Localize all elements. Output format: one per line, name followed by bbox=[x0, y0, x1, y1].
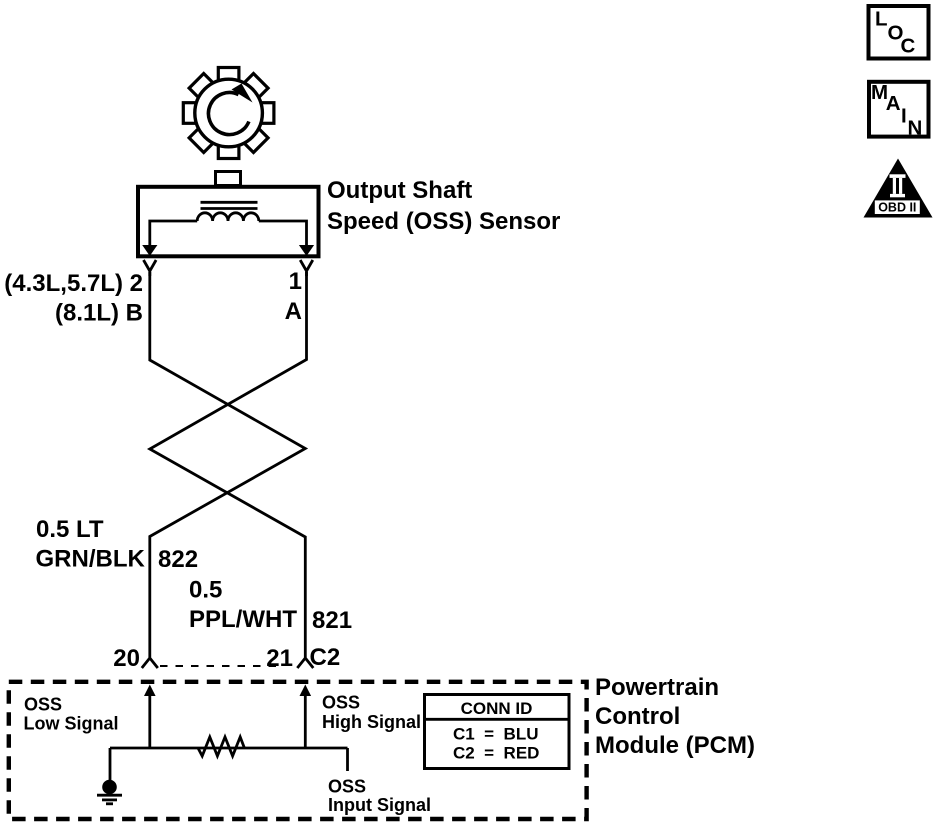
inductor coil bbox=[197, 213, 259, 221]
PCM dashed box bbox=[9, 682, 587, 819]
svg-text:822: 822 bbox=[158, 546, 198, 573]
OSS High Signal arrow bbox=[304, 693, 307, 748]
svg-text:High Signal: High Signal bbox=[322, 712, 421, 732]
PCM pin symbol 21/C2 bbox=[297, 646, 313, 668]
svg-text:OSS: OSS bbox=[24, 695, 62, 715]
svg-text:Control: Control bbox=[595, 703, 680, 730]
svg-text:C2: C2 bbox=[310, 644, 341, 671]
LOC icon bbox=[869, 6, 929, 59]
OSS sensor box bbox=[138, 187, 319, 256]
svg-text:OSS: OSS bbox=[328, 777, 366, 797]
right sensor lead wire bbox=[259, 221, 307, 245]
svg-text:PPL/WHT: PPL/WHT bbox=[189, 606, 297, 633]
sensor mounting tab bbox=[216, 172, 241, 186]
svg-text:(8.1L) B: (8.1L) B bbox=[55, 300, 143, 327]
svg-text:(4.3L,5.7L) 2: (4.3L,5.7L) 2 bbox=[4, 270, 143, 297]
pole piece core lines bbox=[201, 201, 258, 204]
connector C2 dashed line bbox=[160, 665, 278, 667]
svg-text:Low Signal: Low Signal bbox=[24, 714, 119, 734]
right lead arrowhead bbox=[299, 245, 314, 256]
svg-text:L: L bbox=[875, 8, 888, 31]
svg-text:Module (PCM): Module (PCM) bbox=[595, 732, 755, 759]
ground wire bbox=[109, 748, 112, 782]
svg-text:C: C bbox=[901, 35, 916, 58]
svg-text:A: A bbox=[886, 92, 901, 115]
svg-text:0.5: 0.5 bbox=[189, 577, 222, 604]
PCM internal horizontal wire bbox=[110, 747, 348, 750]
wire 821 (PPL/WHT, pin 1 to pin 21) bbox=[150, 272, 307, 646]
svg-text:Output Shaft: Output Shaft bbox=[327, 177, 472, 204]
svg-text:21: 21 bbox=[266, 645, 293, 672]
svg-text:GRN/BLK: GRN/BLK bbox=[36, 546, 146, 573]
svg-text:A: A bbox=[285, 298, 302, 325]
MAIN icon bbox=[869, 82, 929, 137]
svg-text:20: 20 bbox=[113, 645, 140, 672]
PCM pin symbol 20 bbox=[142, 646, 158, 668]
rotation arrow bbox=[208, 84, 252, 135]
OSS Input Signal stub wire bbox=[346, 748, 349, 771]
OSS Low Signal arrow bbox=[148, 693, 151, 748]
svg-text:N: N bbox=[908, 116, 923, 139]
svg-text:1: 1 bbox=[289, 268, 302, 295]
svg-text:OBD II: OBD II bbox=[878, 201, 916, 215]
connector pin Y (sensor pin 1/A) bbox=[300, 260, 313, 276]
ground symbol bbox=[102, 780, 117, 795]
svg-text:0.5 LT: 0.5 LT bbox=[36, 516, 104, 543]
left sensor lead wire bbox=[150, 221, 197, 245]
wire 822 (LT GRN/BLK, pin 2 to pin 20) bbox=[150, 272, 305, 646]
svg-text:Powertrain: Powertrain bbox=[595, 674, 719, 701]
svg-text:Speed (OSS) Sensor: Speed (OSS) Sensor bbox=[327, 208, 560, 235]
svg-text:CONN ID: CONN ID bbox=[461, 699, 533, 718]
svg-text:I: I bbox=[901, 104, 907, 127]
svg-text:C1 = BLU: C1 = BLU bbox=[453, 725, 539, 744]
svg-text:821: 821 bbox=[312, 607, 352, 634]
connector pin Y (sensor pin 2/B) bbox=[144, 260, 157, 276]
svg-text:C2 = RED: C2 = RED bbox=[453, 744, 539, 763]
resistor bbox=[198, 737, 244, 756]
left lead arrowhead bbox=[142, 245, 157, 256]
svg-text:Input Signal: Input Signal bbox=[328, 795, 431, 815]
CONN ID table bbox=[425, 695, 570, 769]
OBD II icon bbox=[864, 159, 933, 218]
svg-text:OSS: OSS bbox=[322, 692, 360, 712]
reluctor gear icon bbox=[183, 68, 274, 159]
